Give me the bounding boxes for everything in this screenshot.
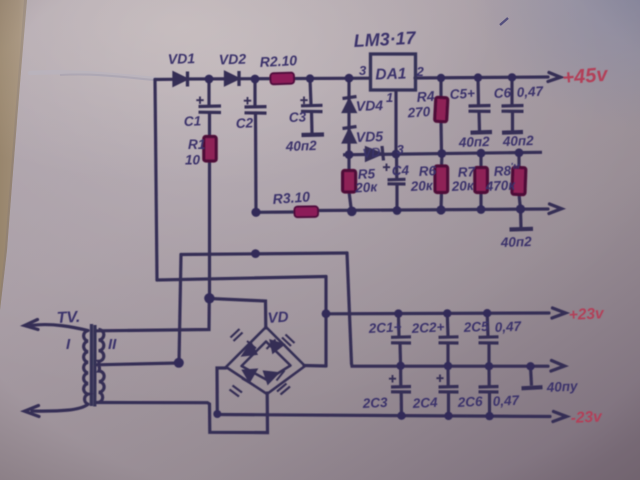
wire: +23V rail bbox=[326, 311, 549, 315]
capacitor C6 bbox=[502, 78, 524, 133]
diode VD5 bbox=[343, 127, 357, 143]
resistor R7 (red vertical) bbox=[475, 153, 488, 209]
svg-text:40пу: 40пу bbox=[545, 378, 579, 395]
wire: bridge left corner drop to -23V bbox=[217, 368, 226, 415]
capacitor 2C4 bbox=[436, 366, 458, 416]
svg-text:LM3·17: LM3·17 bbox=[353, 28, 417, 51]
svg-text:2C3: 2C3 bbox=[361, 395, 388, 411]
svg-text:VD5: VD5 bbox=[356, 128, 384, 145]
arrow bottom rail bbox=[549, 204, 562, 214]
faint erased wire smudge bbox=[30, 72, 156, 79]
wire: DA1 pin1 drop bbox=[394, 90, 397, 154]
svg-text:40п2: 40п2 bbox=[500, 234, 533, 250]
arrow +23V rail bbox=[552, 308, 566, 318]
resistor R1 (red vertical) bbox=[204, 137, 216, 162]
bridge rectifier VD inner diamond bbox=[242, 342, 291, 381]
wire: bridge right stub bbox=[304, 364, 326, 368]
svg-text:DA1: DA1 bbox=[375, 65, 407, 83]
wire: y=253.5 horizontal link bbox=[181, 253, 347, 255]
svg-text:40п2: 40п2 bbox=[502, 133, 535, 149]
capacitor 2C2 bbox=[439, 314, 459, 367]
capacitor on 0V rail (40n to chassis) bbox=[522, 366, 543, 388]
svg-text:2C2+: 2C2+ bbox=[410, 319, 445, 336]
capacitor C1 bbox=[196, 79, 221, 137]
arrows on rails bbox=[548, 73, 567, 422]
wire: mid rail bbox=[343, 152, 542, 155]
resistor R3 (red body on bottom rail) bbox=[294, 206, 318, 217]
wire: node down, corner to transformer secondary top bbox=[97, 298, 209, 331]
wire: x=352 vertical from y253 line down to 0V rail bbox=[347, 253, 352, 364]
svg-text:C5+: C5+ bbox=[449, 86, 475, 102]
wire: center tap wire to transformer bbox=[97, 363, 179, 365]
capacitor 2C3 bbox=[389, 366, 411, 416]
arrow 0V rail bbox=[551, 361, 565, 372]
svg-text:20к: 20к bbox=[354, 179, 379, 195]
wire: transformer secondary bottom to bridge bottom loop bbox=[97, 393, 268, 433]
bridge diode top-left bbox=[243, 341, 257, 356]
svg-text:VD: VD bbox=[267, 309, 289, 327]
svg-text:R2.10: R2.10 bbox=[259, 52, 297, 70]
diode VD3 (on mid rail) bbox=[366, 146, 384, 161]
bridge diode bottom-right bbox=[264, 371, 285, 384]
svg-text:R1: R1 bbox=[188, 137, 205, 152]
svg-text:2C4: 2C4 bbox=[411, 395, 438, 411]
svg-text:2C5: 2C5 bbox=[462, 319, 489, 335]
wire: primary bottom lead with arrow bbox=[25, 404, 89, 416]
svg-text:20к: 20к bbox=[409, 178, 434, 194]
capacitor 2C1 bbox=[391, 314, 411, 366]
capacitor C4 bbox=[383, 154, 406, 211]
bridge diode bottom-left bbox=[242, 370, 257, 385]
svg-text:C3: C3 bbox=[289, 109, 307, 125]
capacitor C5 bbox=[469, 78, 493, 133]
capacitor C3 bbox=[300, 79, 324, 135]
svg-text:VD2: VD2 bbox=[219, 51, 247, 68]
wire: horizontal link y=278 to x=326 bbox=[157, 277, 326, 281]
wire: x=326 vertical down to bridge right stub bbox=[324, 277, 327, 367]
svg-text:VD: VD bbox=[362, 144, 382, 161]
wire: top rail left segment to DA1 pin3 bbox=[155, 78, 370, 79]
diode VD4 (on column x=349) bbox=[343, 78, 357, 155]
wire: 0V mid output rail bbox=[352, 364, 549, 367]
svg-text:2C1+: 2C1+ bbox=[367, 319, 402, 336]
capacitor C2 bbox=[244, 79, 267, 113]
svg-text:10: 10 bbox=[185, 153, 201, 168]
svg-text:2: 2 bbox=[416, 64, 425, 79]
svg-text:0,47: 0,47 bbox=[492, 393, 521, 409]
svg-text:470к: 470к bbox=[484, 177, 516, 194]
svg-text:C1: C1 bbox=[184, 113, 202, 129]
wire: left drop from rail start down bbox=[155, 80, 157, 281]
wire: C1/R1 column drop to node bbox=[208, 161, 211, 298]
wire: node to bridge top corner bbox=[210, 299, 266, 329]
resistor R5 (red vertical) bbox=[343, 155, 356, 212]
svg-text:+23v: +23v bbox=[568, 305, 605, 324]
transformer TV secondary winding II bbox=[99, 330, 105, 403]
bridge snubber cap ticks bottom-left bbox=[230, 386, 243, 397]
bridge snubber cap ticks bottom-right bbox=[277, 384, 290, 395]
diode VD2 bbox=[225, 71, 239, 86]
svg-text:VD1: VD1 bbox=[168, 50, 196, 67]
svg-text:3: 3 bbox=[359, 63, 367, 78]
svg-text:C6: C6 bbox=[493, 85, 512, 101]
svg-text:R4: R4 bbox=[416, 88, 435, 105]
arrow +45V rail bbox=[548, 73, 561, 82]
bridge diode top-right bbox=[267, 340, 284, 353]
table edge strip top-left bbox=[0, 0, 27, 310]
transformer TV core bbox=[91, 324, 95, 407]
wire: bottom rail (R3 rail) with arrow bbox=[256, 209, 548, 212]
resistor R2 (red body on rail) bbox=[270, 73, 294, 85]
capacitor 2C6 bbox=[479, 366, 499, 416]
svg-text:20к: 20к bbox=[450, 178, 475, 194]
bridge snubber cap ticks top-left bbox=[231, 329, 243, 341]
svg-text:270: 270 bbox=[406, 104, 431, 121]
svg-text:40п2: 40п2 bbox=[458, 134, 491, 150]
bridge rectifier VD outer diamond bbox=[226, 327, 305, 394]
arrow -23V rail bbox=[553, 412, 567, 422]
svg-text:40п2: 40п2 bbox=[285, 138, 318, 154]
svg-text:0,47: 0,47 bbox=[494, 319, 523, 335]
svg-text:C4: C4 bbox=[391, 163, 410, 179]
svg-text:2C6: 2C6 bbox=[456, 394, 483, 410]
svg-text:TV.: TV. bbox=[56, 309, 80, 327]
bridge snubber cap ticks top-right bbox=[282, 335, 295, 347]
svg-text:C2: C2 bbox=[236, 115, 254, 131]
svg-text:1: 1 bbox=[386, 90, 393, 105]
svg-text:R6: R6 bbox=[418, 163, 437, 179]
wire: primary top lead with arrow bbox=[25, 320, 89, 331]
resistor R4 (red vertical) bbox=[435, 78, 448, 154]
diode VD1 bbox=[174, 72, 188, 87]
transformer TV primary winding I bbox=[84, 331, 88, 405]
capacitor 2C5 bbox=[479, 313, 499, 366]
svg-text:R3.10: R3.10 bbox=[272, 188, 311, 207]
svg-text:+45v: +45v bbox=[562, 63, 611, 89]
svg-text:-23v: -23v bbox=[570, 408, 603, 427]
op-amp/regulator DA1 (LM317 box) bbox=[371, 54, 416, 90]
resistor R8 (red vertical) bbox=[512, 153, 526, 209]
capacitor below R8 node (40n to chassis) bbox=[510, 209, 534, 230]
resistor R6 (red vertical) bbox=[435, 154, 448, 211]
wire: x=181 vertical down to center tap node bbox=[179, 255, 181, 363]
svg-text:VD4: VD4 bbox=[356, 97, 384, 114]
wire: -23V rail bbox=[217, 415, 550, 417]
wire: C2 bottom drop to R3 rail bbox=[254, 114, 258, 213]
wire: top rail from DA1 pin2 to +45V arrow bbox=[415, 77, 548, 78]
svg-text:0,47: 0,47 bbox=[516, 84, 545, 100]
svg-text:II: II bbox=[108, 336, 117, 353]
stray pen mark top right bbox=[500, 18, 508, 25]
svg-text:3: 3 bbox=[397, 142, 405, 157]
